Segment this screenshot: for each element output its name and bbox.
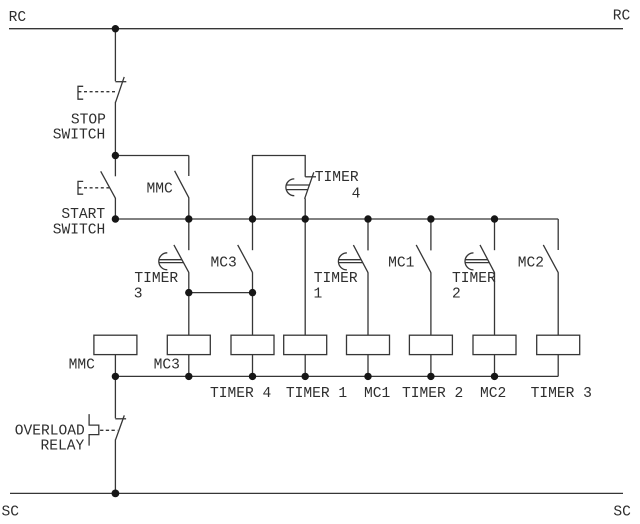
- svg-text:TIMER 2: TIMER 2: [402, 386, 463, 402]
- svg-text:MC3: MC3: [154, 358, 180, 374]
- svg-text:TIMER 3: TIMER 3: [531, 386, 592, 402]
- svg-text:MMC: MMC: [147, 181, 174, 197]
- svg-text:RELAY: RELAY: [41, 439, 85, 455]
- svg-text:SC: SC: [613, 505, 631, 521]
- svg-text:1: 1: [314, 286, 323, 302]
- svg-text:OVERLOAD: OVERLOAD: [15, 423, 85, 439]
- svg-text:MC1: MC1: [364, 386, 391, 402]
- svg-text:MC3: MC3: [211, 255, 237, 271]
- svg-text:2: 2: [452, 286, 461, 302]
- svg-text:STOP: STOP: [71, 112, 106, 128]
- svg-text:TIMER: TIMER: [134, 271, 178, 287]
- svg-text:TIMER 1: TIMER 1: [286, 386, 348, 402]
- svg-text:3: 3: [134, 286, 143, 302]
- svg-text:TIMER: TIMER: [314, 271, 358, 287]
- svg-text:MC2: MC2: [480, 386, 506, 402]
- svg-text:SWITCH: SWITCH: [53, 128, 106, 144]
- svg-text:4: 4: [352, 186, 361, 202]
- svg-text:MMC: MMC: [69, 358, 96, 374]
- svg-text:TIMER 4: TIMER 4: [210, 386, 272, 402]
- svg-text:TIMER: TIMER: [315, 170, 359, 186]
- svg-text:SWITCH: SWITCH: [53, 223, 106, 239]
- svg-text:RC: RC: [9, 10, 27, 26]
- svg-text:MC2: MC2: [518, 255, 544, 271]
- svg-text:RC: RC: [613, 9, 631, 25]
- svg-text:TIMER: TIMER: [452, 271, 496, 287]
- svg-text:SC: SC: [2, 504, 20, 520]
- svg-text:START: START: [61, 207, 105, 223]
- svg-text:MC1: MC1: [388, 255, 415, 271]
